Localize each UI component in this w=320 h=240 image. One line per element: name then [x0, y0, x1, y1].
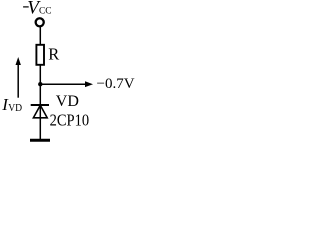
node -Vcc label	[23, 6, 29, 7]
svg-text:VD: VD	[8, 103, 22, 114]
wire circle to resistor	[39, 27, 41, 45]
svg-text:−0.7V: −0.7V	[97, 76, 135, 92]
terminal circle	[36, 18, 44, 26]
wire arrow to -0.7V	[40, 83, 86, 85]
svg-text:CC: CC	[39, 7, 52, 17]
diode VD cathode bar	[31, 104, 49, 106]
svg-text:2CP10: 2CP10	[50, 110, 90, 129]
wire diode to ground	[39, 105, 41, 139]
svg-text:R: R	[48, 44, 59, 63]
ground bar	[30, 139, 50, 142]
resistor R	[36, 45, 44, 65]
wire resistor to diode	[39, 65, 41, 105]
diode VD triangle	[33, 105, 47, 118]
svg-text:VD: VD	[56, 93, 79, 110]
current arrow Ivd	[17, 63, 19, 98]
node junction dot	[38, 82, 42, 86]
